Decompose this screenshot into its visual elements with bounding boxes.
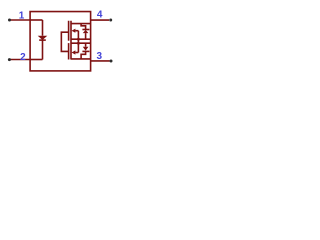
svg-text:1: 1 — [19, 11, 25, 22]
svg-text:3: 3 — [97, 51, 103, 62]
svg-text:2: 2 — [20, 52, 26, 63]
svg-text:4: 4 — [97, 9, 103, 20]
